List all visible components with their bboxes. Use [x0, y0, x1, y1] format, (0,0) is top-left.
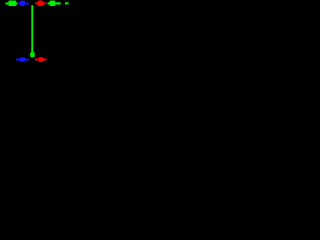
wire: vertical green net from top node down: [31, 5, 33, 52]
wire segment W4 (green) with current arrow, top-right: [48, 1, 62, 6]
current arrow on vertical wire (green, pointing down): [30, 52, 35, 57]
wire segment W5 (green), top far-right stub: [65, 2, 69, 4]
wire segment W3 (red) with current arrow, right of top node: [35, 1, 46, 6]
wire segment W7 (red) with current arrow, bottom-right: [35, 57, 47, 62]
wire segment W6 (blue) with current arrow, bottom-left: [16, 57, 28, 62]
background: [0, 0, 69, 66]
wire: bottom horizontal net (black ink, hidden on dark bg): [13, 58, 47, 61]
wire segment W1 (green) with current arrow, top-left: [5, 0, 17, 6]
wire segment W2 (blue) with current arrow, top: [18, 1, 28, 6]
wire: top horizontal net (black ink, hidden on dark bg): [0, 2, 69, 5]
